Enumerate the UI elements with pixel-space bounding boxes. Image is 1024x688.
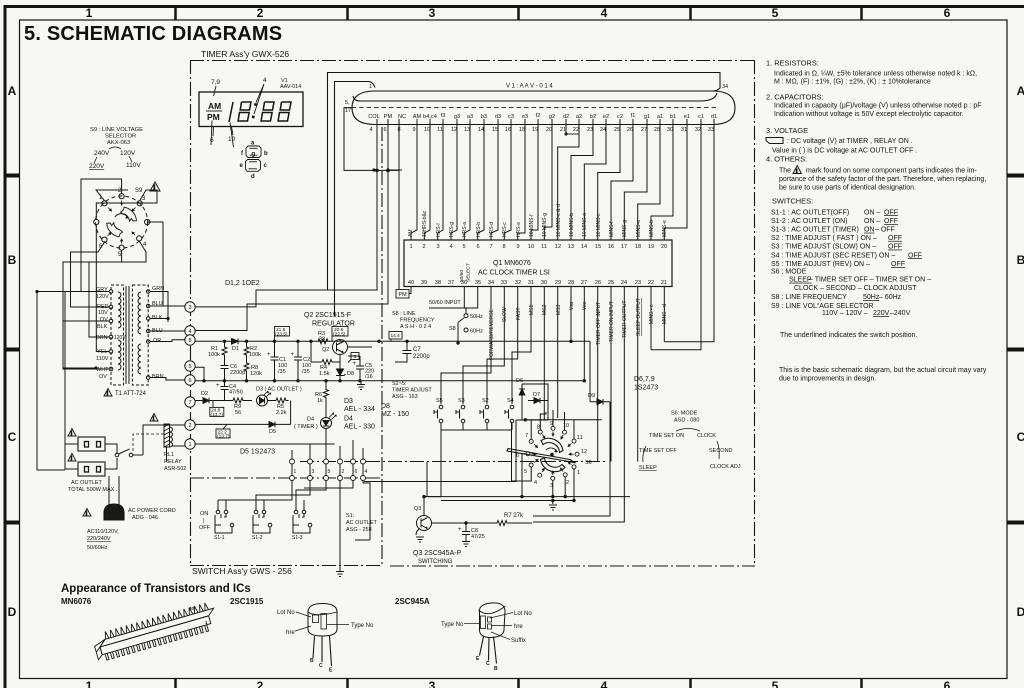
svg-text:D2: D2 [201, 391, 208, 397]
svg-text:TIME SET ON: TIME SET ON [649, 433, 684, 439]
voltage box 24.8 (13.7) [210, 401, 224, 417]
svg-text:7: 7 [489, 244, 492, 250]
svg-text:25: 25 [614, 127, 620, 133]
svg-text:B: B [310, 658, 314, 664]
svg-text:– 60Hz: – 60Hz [879, 294, 902, 301]
svg-text:1: 1 [86, 6, 93, 20]
svg-text:Indication without voltage is: Indication without voltage is 50V except… [774, 111, 964, 118]
svg-text:ASR-502: ASR-502 [164, 466, 186, 472]
svg-text:32: 32 [695, 127, 701, 133]
switch bottom bus [427, 430, 512, 497]
svg-text:HRS-a: HRS-a [462, 222, 468, 237]
svg-text:PM: PM [207, 112, 220, 122]
svg-text:33: 33 [319, 337, 325, 343]
svg-text:S9 : LINE VOL“AGE SELECT: S9 : LINE VOL“AGE SELECTOR [771, 303, 874, 310]
svg-text:6: 6 [210, 137, 214, 144]
svg-text:C: C [8, 430, 17, 444]
relay dashed actuator line [133, 434, 164, 452]
bottom band column ticks [176, 678, 862, 688]
svg-text:4: 4 [449, 244, 452, 250]
svg-text:10: 10 [528, 244, 534, 250]
svg-text:100k: 100k [208, 352, 220, 358]
svg-text:Vee: Vee [582, 301, 588, 310]
connector 4 wire to diode block [364, 420, 522, 482]
svg-text:50/60Hz: 50/60Hz [87, 545, 108, 551]
svg-text:5: 5 [772, 6, 779, 20]
svg-text:8: 8 [537, 425, 540, 431]
colon [253, 103, 256, 118]
svg-text:C7: C7 [413, 347, 421, 353]
svg-text:4: 4 [188, 329, 191, 335]
svg-text:6: 6 [383, 127, 386, 133]
svg-text:5: 5 [188, 364, 191, 370]
svg-text:120V: 120V [120, 150, 136, 157]
outlet switch contact [105, 444, 143, 469]
svg-text:V 1 : A A V - 0 1 4: V 1 : A A V - 0 1 4 [506, 84, 553, 90]
svg-text:ASG - 163: ASG - 163 [392, 394, 418, 400]
svg-text:TIMER Ass'y GWX-526: TIMER Ass'y GWX-526 [201, 49, 289, 59]
svg-text:30: 30 [667, 127, 673, 133]
row letters [8, 84, 1024, 619]
svg-text:D3: D3 [344, 398, 353, 405]
svg-text:1k: 1k [317, 398, 323, 404]
wiper blade [507, 449, 576, 464]
svg-text:SWITCHING: SWITCHING [418, 559, 453, 565]
rotated signal labels below IC pins [489, 298, 668, 360]
svg-text:d: d [251, 174, 255, 180]
svg-text:3: 3 [429, 679, 436, 688]
svg-text:21: 21 [661, 280, 667, 286]
svg-text:31: 31 [681, 127, 687, 133]
resistor R5 2.2k [272, 398, 289, 403]
svg-text:2: 2 [257, 6, 264, 20]
svg-text:3: 3 [436, 244, 439, 250]
svg-text:S1-2 : AC OUTLET (ON): S1-2 : AC OUTLET (ON) [771, 218, 848, 225]
transistor 2SC945A package drawing [479, 603, 506, 664]
connector stub wires [218, 430, 370, 540]
ground below C5 [357, 381, 365, 390]
column numbers top [86, 6, 951, 20]
svg-text:D: D [1017, 605, 1024, 619]
svg-text:SLEEP: SLEEP [639, 465, 657, 471]
svg-text:AKX-063: AKX-063 [107, 140, 130, 146]
svg-text:S9 : LINE VOLTAGE: S9 : LINE VOLTAGE [90, 127, 143, 133]
svg-text:100k: 100k [249, 352, 261, 358]
slide switch S1-3 [293, 500, 312, 527]
leads [313, 636, 332, 666]
svg-text:14: 14 [581, 244, 587, 250]
svg-text:hre: hre [514, 624, 523, 630]
svg-text:4: 4 [534, 480, 537, 486]
taps secondary [146, 290, 150, 294]
svg-text:Q3: Q3 [414, 506, 421, 512]
svg-text:OFF: OFF [908, 252, 922, 259]
svg-text:S6: MODE: S6: MODE [671, 411, 698, 417]
switch internal wires [215, 525, 310, 533]
svg-text:AAV-014: AAV-014 [280, 84, 301, 90]
face window [481, 616, 486, 629]
svg-text:12: 12 [555, 244, 561, 250]
svg-text:M : MΩ, (F) : ±1%, (G) : ±2%,: M : MΩ, (F) : ±1%, (G) : ±2%, (K) : ± 10… [774, 79, 931, 86]
svg-text:D4: D4 [344, 416, 353, 423]
svg-text:SWITCHES:: SWITCHES: [772, 197, 813, 206]
svg-text:HRS-b: HRS-b [476, 222, 482, 237]
svg-text:S4 : TIME ADJUST (SEC RES: S4 : TIME ADJUST (SEC RESET) ON – [771, 252, 895, 259]
svg-text:A: A [8, 84, 17, 98]
svg-text:27: 27 [641, 127, 647, 133]
Q3 emitter ground [416, 529, 424, 543]
svg-text:MINS-g: MINS-g [622, 220, 628, 237]
right band row ticks [1007, 176, 1024, 523]
svg-text:220V: 220V [89, 163, 105, 170]
svg-text:(13.7): (13.7) [211, 412, 224, 418]
svg-text:FORWARD/REVERSE: FORWARD/REVERSE [489, 308, 495, 360]
svg-text:MINS-a: MINS-a [636, 220, 642, 237]
rotated signal labels above IC pins [408, 204, 668, 237]
lower pin comb on front face [105, 624, 212, 660]
svg-text:A: A [1017, 84, 1024, 98]
svg-text:S5: S5 [436, 398, 443, 404]
lower C arc double [541, 458, 566, 472]
svg-text:10 MINS-b: 10 MINS-b [569, 213, 575, 237]
svg-text:5,: 5, [345, 100, 350, 106]
svg-text:portance of the safety factor: portance of the safety factor of the par… [779, 176, 986, 183]
svg-text:5: 5 [328, 469, 331, 475]
resistor R6 1k [324, 381, 329, 418]
svg-text:AC CLOCK TIMER LSI: AC CLOCK TIMER LSI [478, 270, 550, 277]
svg-text:S1-3: S1-3 [292, 535, 303, 541]
resistor R8 120k [244, 356, 249, 381]
svg-text:MINS-b: MINS-b [649, 220, 655, 237]
svg-text:D: D [8, 605, 17, 619]
svg-text:S6: S6 [585, 460, 592, 466]
svg-text:TOTAL 500W MAX .: TOTAL 500W MAX . [68, 487, 118, 493]
top band column ticks [176, 5, 862, 20]
svg-text:D9: D9 [588, 393, 595, 399]
display module box [199, 92, 303, 127]
svg-text:D8: D8 [381, 403, 390, 410]
capacitor C2 100/35 [294, 341, 302, 381]
svg-text:Lot No: Lot No [514, 611, 532, 617]
left side face [94, 639, 110, 660]
svg-text:g: g [252, 152, 256, 158]
svg-text:OV: OV [100, 317, 108, 323]
svg-text:10 MINS-c: 10 MINS-c [596, 213, 602, 237]
svg-text:C: C [486, 661, 490, 667]
warning triangles at outlets [68, 429, 76, 463]
slide switch S1-1 [215, 500, 234, 527]
svg-text:S1-2: S1-2 [252, 535, 263, 541]
svg-text:38: 38 [435, 280, 441, 286]
NOTES COLUMN (right side) [766, 59, 987, 383]
svg-text:+: + [267, 352, 271, 358]
ground under S6 bus [549, 505, 557, 510]
grid dashed line [352, 107, 716, 109]
svg-text:D5: D5 [269, 429, 276, 435]
tube pin labels [368, 113, 717, 120]
svg-text:f2: f2 [536, 113, 541, 119]
svg-text:Q2 2SC1915-F: Q2 2SC1915-F [304, 312, 351, 319]
svg-text:|: | [203, 518, 204, 524]
svg-text:Value in ( ) is DC voltag: Value in ( ) is DC voltage at AC OUTLET … [772, 147, 917, 154]
svg-text:13: 13 [464, 127, 470, 133]
svg-text:32: 32 [515, 280, 521, 286]
svg-text:(13.7): (13.7) [217, 434, 230, 440]
svg-text:11: 11 [541, 244, 547, 250]
column numbers bottom [86, 679, 951, 688]
voltage box 21.5 (23.5) [275, 327, 290, 342]
junction dots on rails [202, 340, 380, 383]
base feed [311, 340, 340, 363]
svg-text:S1:: S1: [346, 513, 355, 519]
svg-text:OFF: OFF [888, 235, 902, 242]
transistor 2SC1915 package drawing [308, 604, 337, 667]
wire from primary top-left loop [37, 291, 96, 293]
svg-text:D6,7,9: D6,7,9 [634, 376, 655, 383]
svg-text:10: 10 [563, 423, 569, 429]
svg-text:6: 6 [476, 244, 479, 250]
svg-text:20: 20 [546, 127, 552, 133]
svg-text:Suffix: Suffix [511, 638, 526, 644]
svg-text:19: 19 [532, 127, 538, 133]
svg-text:4: 4 [365, 469, 368, 475]
svg-text:ON: ON [864, 227, 875, 234]
svg-text:D4: D4 [307, 417, 314, 423]
svg-text:Vss: Vss [569, 301, 575, 310]
svg-text:2SC945A: 2SC945A [395, 597, 430, 606]
svg-text:Indicated in Ω, ¼W, ±5% tolera: Indicated in Ω, ¼W, ±5% tolerance unless… [774, 71, 977, 78]
svg-text:!: ! [107, 391, 109, 397]
svg-text:120V: 120V [114, 335, 126, 341]
slide switch S1-2 [253, 500, 272, 527]
svg-text:AEL - 334: AEL - 334 [344, 406, 375, 413]
body front face [100, 616, 211, 655]
NC wire [398, 119, 400, 170]
taps primary [109, 290, 113, 294]
capacitor C5 220/16 [356, 356, 364, 381]
svg-text:SLOW: SLOW [502, 307, 508, 322]
svg-text:14: 14 [478, 127, 484, 133]
svg-text:21: 21 [560, 127, 566, 133]
svg-text:34: 34 [488, 280, 494, 286]
svg-text:16: 16 [505, 127, 511, 133]
svg-text:39: 39 [421, 280, 427, 286]
svg-text:120V: 120V [96, 294, 109, 300]
voltage box 5 [348, 353, 359, 363]
svg-text:OFF: OFF [199, 525, 211, 531]
svg-text:240V: 240V [94, 150, 110, 157]
svg-text:110V: 110V [126, 162, 141, 169]
svg-text:10HRS-b&c: 10HRS-b&c [422, 210, 428, 237]
svg-text:FREQUENCY: FREQUENCY [400, 318, 435, 324]
svg-text:17: 17 [621, 244, 627, 250]
filament over-wire loop [328, 73, 721, 291]
svg-text:This is the basic schematic di: This is the basic schematic diagram, but… [779, 367, 987, 374]
relay coil bottom wire [166, 447, 168, 462]
transformer name [104, 389, 112, 398]
svg-text:D8: D8 [347, 371, 354, 377]
AM/PM legend [207, 101, 221, 122]
type bar [321, 614, 327, 630]
svg-text:PM: PM [399, 292, 408, 298]
diode D9 [597, 399, 603, 405]
svg-text:A S H - 0 2 4: A S H - 0 2 4 [400, 324, 431, 330]
svg-text:3. VOLTAGE: 3. VOLTAGE [766, 126, 808, 135]
svg-text:14.4: 14.4 [391, 333, 401, 339]
S3 [461, 405, 465, 409]
svg-text:2: 2 [257, 679, 264, 688]
svg-text:24: 24 [600, 127, 606, 133]
svg-text:D7: D7 [533, 392, 540, 398]
svg-text:7,9: 7,9 [211, 79, 220, 86]
zener D8 [336, 355, 346, 381]
svg-text:SELECTOR: SELECTOR [105, 134, 136, 140]
svg-text:220/240V: 220/240V [87, 536, 111, 542]
svg-text:6: 6 [944, 6, 951, 20]
svg-text:mark found on some component p: mark found on some component parts indic… [806, 168, 977, 175]
svg-text:ON –: ON – [864, 209, 880, 216]
svg-text:SLEEP OUTPUT: SLEEP OUTPUT [636, 298, 642, 336]
svg-text:GRY: GRY [96, 287, 108, 293]
svg-text:!: ! [71, 431, 73, 437]
svg-text:20: 20 [661, 244, 667, 250]
svg-text:be sure to use parts of identi: be sure to use parts of identical design… [779, 185, 916, 192]
svg-text:12: 12 [581, 449, 587, 455]
svg-text:10: 10 [424, 127, 430, 133]
svg-text:1: 1 [577, 470, 580, 476]
svg-text:WHT: WHT [96, 367, 109, 373]
svg-text:8: 8 [188, 338, 191, 344]
svg-text:23: 23 [635, 280, 641, 286]
svg-text:18: 18 [519, 127, 525, 133]
svg-text:22: 22 [648, 280, 654, 286]
svg-text:5: 5 [354, 354, 357, 360]
svg-text:15: 15 [595, 244, 601, 250]
svg-text:AC OUTLET: AC OUTLET [346, 520, 378, 526]
svg-text:9: 9 [516, 244, 519, 250]
svg-text:34: 34 [722, 84, 728, 90]
svg-text:AC POWER CORD: AC POWER CORD [128, 508, 176, 514]
svg-text:1. RESISTORS:: 1. RESISTORS: [766, 59, 819, 68]
AM..c3 to IC pins 1..8 (nearly straight) [411, 122, 417, 240]
svg-text:Type No: Type No [351, 623, 374, 629]
resistor R2 100k [244, 341, 249, 356]
resistor R1 100k [222, 341, 227, 356]
svg-text:CLOCK – SECOND – CLOCK ADJUST: CLOCK – SECOND – CLOCK ADJUST [794, 285, 917, 292]
svg-text:CLOCK: CLOCK [697, 433, 716, 439]
tube pin stubs through bottom edge [417, 119, 714, 134]
IC MN6076 package drawing (DIP-40 isometric) [91, 601, 219, 662]
svg-text:31: 31 [528, 280, 534, 286]
svg-text:OFF: OFF [884, 209, 898, 216]
svg-text:!: ! [71, 456, 73, 462]
node 7 bus [196, 400, 204, 402]
svg-text:4: 4 [369, 127, 372, 133]
wire IC pin36 to S8 [464, 287, 466, 314]
svg-text:S3: S3 [458, 398, 465, 404]
svg-text:ASD - 080: ASD - 080 [674, 418, 699, 424]
svg-text:120k: 120k [250, 371, 262, 377]
svg-text:220V: 220V [873, 310, 890, 317]
svg-text:f3: f3 [441, 113, 446, 119]
capacitor C8 47/25 [462, 523, 470, 541]
COL wire to node 3 [196, 119, 378, 307]
svg-text:4. OTHERS:: 4. OTHERS: [766, 155, 807, 164]
primary tap labels [96, 287, 126, 380]
svg-text:+: + [458, 527, 462, 533]
svg-text:B: B [494, 666, 498, 672]
svg-text:1: 1 [86, 679, 93, 688]
svg-text:D5 1S2473: D5 1S2473 [240, 449, 275, 456]
svg-text:due to improvements in design.: due to improvements in design. [779, 376, 876, 383]
svg-text:7: 7 [188, 400, 191, 406]
svg-text:10 MINS-e & d: 10 MINS-e & d [556, 204, 562, 237]
svg-text:(22.5): (22.5) [333, 332, 346, 338]
svg-text:OV: OV [99, 374, 107, 380]
svg-text:S2 : TIME ADJUST ( FAST ): S2 : TIME ADJUST ( FAST ) ON – [771, 235, 877, 242]
S9 wiring [63, 179, 163, 345]
svg-text:D1,2 1OE2: D1,2 1OE2 [225, 280, 260, 287]
can body [308, 604, 337, 637]
svg-text:MINS - d: MINS - d [662, 304, 668, 324]
svg-text:10V: 10V [98, 310, 108, 316]
svg-text:/16: /16 [365, 374, 373, 380]
svg-text:TIMER ON INPUT: TIMER ON INPUT [609, 301, 615, 342]
svg-text:!: ! [86, 511, 88, 517]
svg-text:24: 24 [621, 280, 627, 286]
svg-text:– OFF: – OFF [875, 227, 895, 234]
IC top pin numbers [409, 244, 667, 250]
svg-text:R7 27k: R7 27k [504, 513, 524, 519]
svg-text:MINS - c: MINS - c [649, 304, 655, 324]
S6 wires [424, 410, 630, 504]
left band row ticks [4, 176, 19, 523]
svg-text:+: + [216, 383, 220, 389]
svg-text:29: 29 [555, 280, 561, 286]
resistor R4 1.5k [322, 360, 332, 365]
svg-text:16: 16 [608, 244, 614, 250]
svg-text:Lot No: Lot No [277, 610, 295, 616]
svg-text:26: 26 [595, 280, 601, 286]
svg-text:6: 6 [355, 469, 358, 475]
leads [480, 637, 497, 664]
svg-text:28: 28 [654, 127, 660, 133]
svg-text:b: b [264, 151, 268, 157]
svg-text:11: 11 [577, 435, 583, 441]
svg-text:MZ - 150: MZ - 150 [381, 411, 409, 418]
svg-text:ASG - 258: ASG - 258 [346, 527, 372, 533]
svg-text:HRS-e: HRS-e [516, 222, 522, 237]
grid tie wire pins 5,17 [344, 108, 399, 171]
envelope [352, 91, 735, 125]
body top face [98, 608, 215, 647]
capacitor C1 100/35 [271, 341, 279, 381]
svg-text:+: + [291, 352, 295, 358]
svg-text:The: The [779, 168, 791, 175]
svg-text:S5 : TIME ADJUST (REV): S5 : TIME ADJUST (REV) ON – [771, 261, 870, 268]
svg-text:SWITCH Ass'y GWS - 256: SWITCH Ass'y GWS - 256 [192, 566, 292, 576]
voltage box 20.6 (22.5) [332, 327, 348, 342]
svg-text:47/25: 47/25 [471, 534, 485, 540]
svg-text:3: 3 [312, 469, 315, 475]
svg-text:D3 ( AC OUTLET ): D3 ( AC OUTLET ) [256, 387, 302, 393]
svg-text:50Hz: 50Hz [863, 294, 880, 301]
Q3 collector up [423, 497, 425, 516]
7-segment reference glyph [246, 146, 262, 171]
svg-text:2: 2 [342, 469, 345, 475]
svg-text:MS3: MS3 [556, 305, 562, 316]
svg-text:S1-3 : AC OUTLET (TIMER): S1-3 : AC OUTLET (TIMER) [771, 227, 859, 234]
